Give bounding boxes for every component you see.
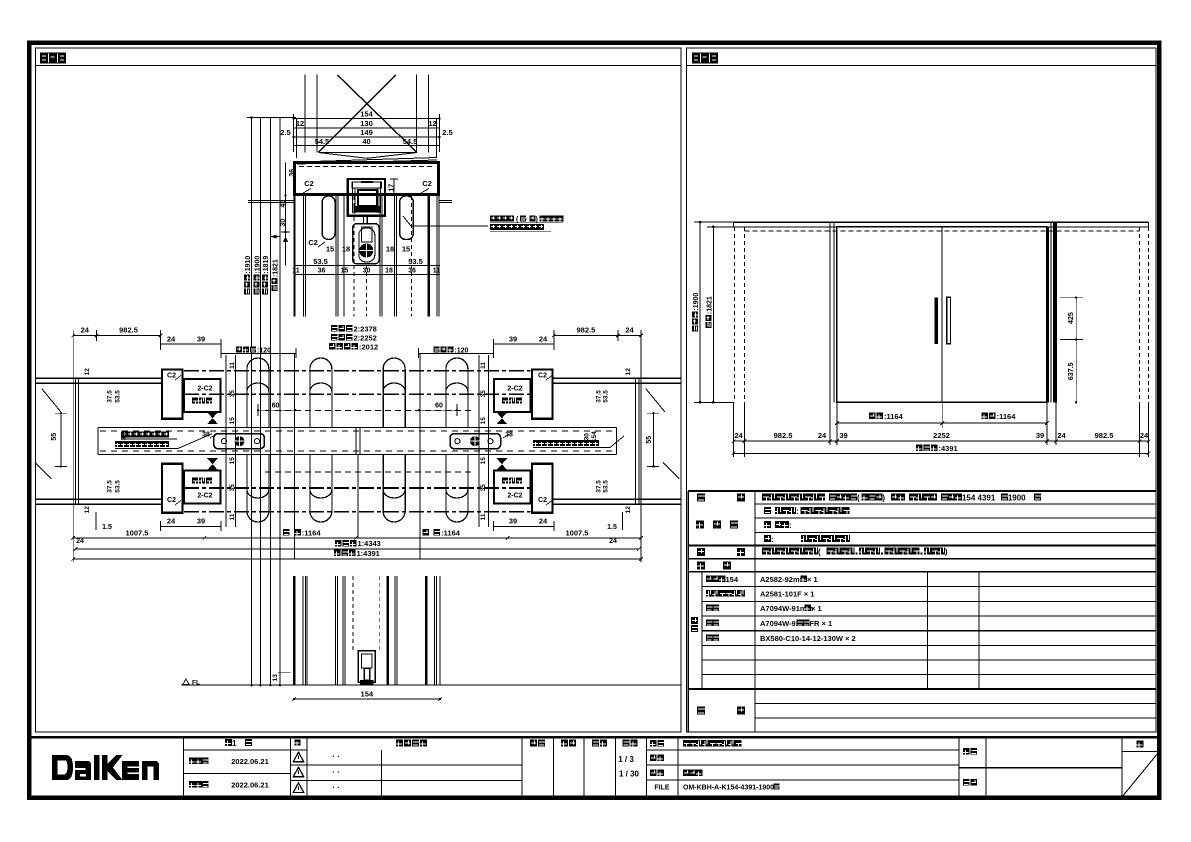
svg-text::1900: :1900 — [254, 256, 261, 274]
svg-text:24: 24 — [1057, 431, 1066, 440]
svg-text:C2: C2 — [422, 179, 432, 188]
svg-text:130: 130 — [360, 119, 373, 128]
svg-text:12: 12 — [625, 506, 632, 514]
svg-text:15: 15 — [402, 245, 410, 254]
svg-text:· ·: · · — [332, 768, 340, 777]
svg-text::1821: :1821 — [706, 296, 713, 314]
svg-text:1.5: 1.5 — [607, 524, 617, 531]
svg-text:24: 24 — [76, 538, 84, 545]
svg-text:982.5: 982.5 — [774, 431, 793, 440]
svg-text:53.5: 53.5 — [603, 480, 610, 493]
svg-text:· ·: · · — [332, 752, 340, 761]
svg-text:38: 38 — [505, 432, 513, 439]
svg-text:15: 15 — [229, 417, 236, 425]
svg-text:35: 35 — [480, 484, 487, 492]
svg-text:39: 39 — [509, 335, 517, 344]
svg-text:12: 12 — [84, 368, 91, 376]
svg-text:53.5: 53.5 — [114, 480, 121, 493]
svg-text:C2: C2 — [167, 497, 176, 504]
svg-text:53.5: 53.5 — [114, 390, 121, 403]
svg-text:154: 154 — [591, 431, 598, 442]
svg-text:55: 55 — [51, 433, 58, 441]
svg-text:18: 18 — [386, 245, 394, 254]
svg-text:54.5: 54.5 — [315, 137, 330, 146]
svg-text:30: 30 — [120, 433, 127, 441]
svg-text:2.5: 2.5 — [442, 128, 452, 137]
svg-text:24: 24 — [625, 326, 634, 335]
svg-text:53.5: 53.5 — [603, 390, 610, 403]
svg-text::: : — [796, 507, 799, 516]
svg-text:1: 1 — [232, 739, 237, 748]
svg-text:· ·: · · — [332, 783, 340, 792]
svg-text:12: 12 — [625, 368, 632, 376]
svg-text:39: 39 — [1036, 431, 1044, 440]
svg-text:425: 425 — [1068, 312, 1075, 324]
svg-text:FILE: FILE — [654, 785, 669, 792]
svg-text::: : — [771, 535, 774, 544]
svg-text:1:4391: 1:4391 — [357, 549, 380, 558]
svg-text:FL: FL — [192, 680, 200, 687]
svg-text:A7094W-91: A7094W-91 — [760, 619, 800, 628]
svg-text:C2: C2 — [538, 373, 547, 380]
svg-text:2022.06.21: 2022.06.21 — [231, 757, 269, 766]
svg-text:40: 40 — [362, 137, 370, 146]
svg-text:24: 24 — [539, 517, 548, 526]
svg-text:BX580-C10-14-12-130W × 2: BX580-C10-14-12-130W × 2 — [760, 634, 856, 643]
svg-text:2:2378: 2:2378 — [354, 324, 377, 333]
svg-text::2012: :2012 — [359, 342, 378, 351]
svg-text:37.5: 37.5 — [106, 390, 113, 403]
svg-text:C2: C2 — [308, 238, 318, 247]
svg-text:1 / 30: 1 / 30 — [619, 770, 640, 779]
svg-text:1 / 3: 1 / 3 — [618, 755, 634, 764]
svg-text:39: 39 — [197, 517, 205, 526]
svg-text:(: ( — [857, 493, 860, 502]
svg-text:24: 24 — [609, 538, 617, 545]
svg-text:30: 30 — [583, 433, 590, 441]
svg-text:2:2252: 2:2252 — [354, 333, 377, 342]
svg-text:2-C2: 2-C2 — [507, 386, 522, 393]
svg-text:24: 24 — [539, 335, 548, 344]
svg-text:C2: C2 — [167, 373, 176, 380]
svg-text:12: 12 — [296, 119, 304, 128]
svg-text:39: 39 — [509, 517, 517, 526]
svg-text::4391: :4391 — [939, 444, 958, 453]
svg-text:17: 17 — [388, 184, 395, 192]
svg-text:OM-KBH-A-K154-4391-1900-: OM-KBH-A-K154-4391-1900- — [683, 784, 777, 791]
svg-text:1007.5: 1007.5 — [126, 528, 149, 537]
svg-text:982.5: 982.5 — [1095, 431, 1114, 440]
svg-text::1819: :1819 — [263, 256, 270, 274]
svg-text:12: 12 — [428, 119, 436, 128]
svg-text:37.5: 37.5 — [595, 390, 602, 403]
svg-text:60: 60 — [435, 403, 443, 410]
svg-text:154: 154 — [361, 689, 374, 698]
svg-text::1164: :1164 — [884, 412, 904, 421]
svg-text:2252: 2252 — [933, 431, 950, 440]
svg-text:35: 35 — [480, 390, 487, 398]
svg-text:2-C2: 2-C2 — [197, 493, 212, 500]
svg-text:24: 24 — [167, 517, 176, 526]
svg-text:36: 36 — [408, 268, 416, 275]
svg-text:53.5: 53.5 — [313, 257, 328, 266]
svg-text:36: 36 — [318, 268, 326, 275]
svg-text:35: 35 — [229, 484, 236, 492]
svg-text:39: 39 — [839, 431, 847, 440]
svg-text:2-C2: 2-C2 — [197, 386, 212, 393]
svg-text:39: 39 — [197, 335, 205, 344]
svg-text::1900: :1900 — [693, 293, 700, 311]
svg-text:2-C2: 2-C2 — [507, 493, 522, 500]
svg-text:A2581-101F × 1: A2581-101F × 1 — [760, 589, 814, 598]
svg-text:FR × 1: FR × 1 — [809, 619, 832, 628]
svg-text:11: 11 — [480, 513, 487, 520]
svg-text:37.5: 37.5 — [106, 480, 113, 493]
svg-text:11: 11 — [229, 513, 236, 520]
svg-text:35: 35 — [229, 390, 236, 398]
svg-text:× 1: × 1 — [807, 575, 818, 584]
svg-text:24: 24 — [167, 335, 176, 344]
svg-text:36: 36 — [289, 169, 296, 177]
svg-text:13: 13 — [272, 674, 279, 682]
svg-text:15: 15 — [480, 417, 487, 425]
svg-text:11: 11 — [229, 362, 236, 369]
svg-text::120: :120 — [454, 347, 468, 354]
svg-text:30: 30 — [280, 219, 287, 227]
svg-text:1:4343: 1:4343 — [358, 539, 381, 548]
svg-text:637.5: 637.5 — [1068, 362, 1075, 380]
svg-text:982.5: 982.5 — [119, 326, 138, 335]
svg-text:): ) — [882, 493, 885, 502]
svg-text:18: 18 — [385, 268, 393, 275]
svg-text:24: 24 — [818, 431, 827, 440]
svg-text:55: 55 — [646, 436, 653, 444]
svg-text:60: 60 — [272, 403, 280, 410]
svg-text::120: :120 — [257, 347, 271, 354]
svg-text:): ) — [945, 547, 948, 556]
svg-text:37.5: 37.5 — [595, 480, 602, 493]
svg-text:154: 154 — [360, 110, 373, 119]
svg-text:24: 24 — [81, 326, 90, 335]
svg-text:1.5: 1.5 — [102, 524, 112, 531]
svg-text::1821: :1821 — [272, 259, 279, 277]
svg-text::1164: :1164 — [302, 529, 322, 538]
svg-text:154 4391: 154 4391 — [962, 493, 996, 502]
svg-text:149: 149 — [360, 128, 373, 137]
svg-text:24: 24 — [1140, 431, 1149, 440]
svg-text:C2: C2 — [304, 179, 314, 188]
svg-text::1164: :1164 — [441, 529, 461, 538]
svg-text::1910: :1910 — [245, 256, 252, 274]
svg-text:24: 24 — [734, 431, 743, 440]
svg-text:54.5: 54.5 — [403, 137, 418, 146]
svg-text:× 1: × 1 — [811, 604, 822, 613]
svg-text::1164: :1164 — [997, 412, 1017, 421]
svg-text:C2: C2 — [538, 497, 547, 504]
svg-text:15: 15 — [229, 457, 236, 465]
svg-text::: : — [789, 521, 792, 530]
svg-text:15: 15 — [341, 268, 349, 275]
svg-text:15: 15 — [326, 245, 334, 254]
svg-text:11: 11 — [480, 362, 487, 369]
svg-text:982.5: 982.5 — [577, 326, 596, 335]
svg-text:(: ( — [818, 547, 821, 556]
svg-text:2022.06.21: 2022.06.21 — [231, 781, 269, 790]
svg-text:1007.5: 1007.5 — [566, 528, 589, 537]
svg-text:2.5: 2.5 — [280, 128, 290, 137]
svg-text:154: 154 — [726, 575, 739, 584]
svg-text:A2582-92mm: A2582-92mm — [760, 575, 807, 584]
svg-text:15: 15 — [480, 457, 487, 465]
svg-text:1900: 1900 — [1008, 493, 1026, 502]
svg-text:12: 12 — [84, 506, 91, 514]
svg-text:18: 18 — [342, 245, 350, 254]
svg-text:53.5: 53.5 — [408, 257, 423, 266]
